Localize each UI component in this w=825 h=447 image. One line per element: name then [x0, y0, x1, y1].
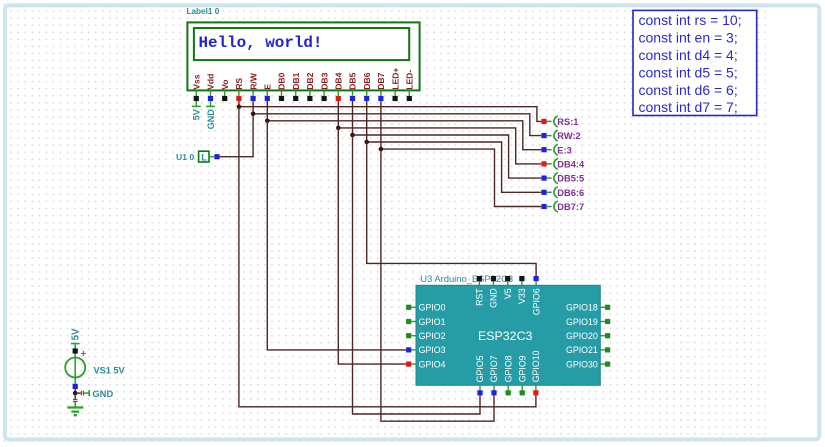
pin DB5 of LCD — [348, 72, 358, 101]
pin Vo of LCD — [220, 79, 230, 101]
pin V5 of U3 — [503, 276, 513, 299]
svg-text:const int d4 = 4;: const int d4 = 4; — [639, 47, 738, 63]
svg-text:Hello, world!: Hello, world! — [199, 34, 323, 52]
svg-text:GPIO18: GPIO18 — [566, 303, 598, 313]
pin GPIO9 of U3 — [517, 355, 527, 395]
pin RS of LCD — [234, 78, 244, 102]
wire DB7 pin to connector DB7 — [381, 101, 541, 206]
pin GND of U3 — [489, 276, 499, 308]
pin GPIO4 of U3 — [406, 359, 445, 369]
wire E pin to connector E — [267, 101, 541, 150]
wire DB5 pin to connector DB5 — [353, 101, 542, 178]
svg-text:DB2: DB2 — [305, 72, 315, 89]
svg-text:DB7: DB7 — [376, 72, 386, 89]
svg-text:DB4:4: DB4:4 — [557, 160, 585, 170]
svg-text:RW:2: RW:2 — [557, 131, 580, 141]
svg-text:VS1 5V: VS1 5V — [94, 366, 126, 376]
svg-text:GPIO3: GPIO3 — [419, 345, 446, 355]
svg-text:DB4: DB4 — [334, 72, 344, 89]
svg-text:GND: GND — [206, 109, 216, 130]
svg-text:E: E — [263, 84, 273, 90]
svg-text:RS: RS — [234, 78, 244, 90]
pin GPIO7 of U3 — [489, 355, 499, 395]
wire VS1 minus to junction — [74, 389, 76, 393]
svg-text:GPIO30: GPIO30 — [566, 359, 598, 369]
junction DB7 — [379, 147, 384, 152]
junction DB5 — [350, 133, 355, 138]
chip U3 ESP32C3 body — [416, 285, 600, 385]
wire DB4 to GPIO4 — [338, 128, 406, 364]
pin DB6 of LCD — [362, 72, 372, 101]
svg-text:LED+: LED+ — [390, 68, 400, 90]
connector DB4:4 — [541, 159, 585, 170]
pin RST of U3 — [475, 276, 485, 306]
pin GPIO6 of U3 — [531, 276, 541, 315]
label Label1 0 — [187, 7, 220, 16]
svg-text:GPIO10: GPIO10 — [531, 350, 541, 382]
net label 5V (Vss) — [192, 101, 202, 120]
pin LED- of LCD — [405, 70, 415, 101]
pin GPIO19 of U3 — [566, 317, 610, 327]
svg-text:DB5:5: DB5:5 — [557, 174, 584, 184]
svg-text:GPIO5: GPIO5 — [475, 355, 485, 382]
svg-text:DB6:6: DB6:6 — [557, 188, 584, 198]
pin DB3 of LCD — [319, 72, 329, 101]
svg-text:DB0: DB0 — [277, 72, 287, 89]
svg-text:ESP32C3: ESP32C3 — [478, 329, 533, 343]
pin DB1 of LCD — [291, 72, 301, 101]
svg-text:Label1 0: Label1 0 — [187, 7, 220, 16]
wire DB7 to GPIO7 — [381, 149, 494, 421]
svg-text:const int d7 = 7;: const int d7 = 7; — [639, 99, 738, 115]
svg-text:GPIO20: GPIO20 — [566, 331, 598, 341]
junction VS1 gnd node — [73, 391, 78, 396]
svg-text:GND: GND — [92, 388, 113, 399]
pin GPIO3 of U3 — [406, 345, 445, 355]
svg-text:L: L — [201, 152, 207, 163]
net label GND (VS1) — [75, 388, 113, 399]
svg-text:DB3: DB3 — [319, 72, 329, 89]
svg-text:RST: RST — [475, 288, 485, 306]
svg-text:GPIO1: GPIO1 — [419, 317, 446, 327]
svg-text:GPIO8: GPIO8 — [503, 355, 513, 382]
pin GPIO20 of U3 — [566, 331, 610, 341]
pin DB7 of LCD — [376, 72, 386, 101]
LCD display module Label1 — [187, 22, 419, 90]
connector DB6:6 — [541, 187, 584, 198]
connector DB5:5 — [541, 173, 584, 184]
svg-text:5V: 5V — [192, 109, 202, 120]
svg-text:GPIO9: GPIO9 — [517, 355, 527, 382]
svg-text:DB6: DB6 — [362, 72, 372, 89]
svg-text:GPIO0: GPIO0 — [419, 303, 446, 313]
svg-text:GPIO19: GPIO19 — [566, 317, 598, 327]
pin GPIO2 of U3 — [406, 331, 445, 341]
svg-text:E:3: E:3 — [557, 145, 571, 155]
pin GPIO0 of U3 — [406, 303, 445, 313]
svg-text:GND: GND — [489, 288, 499, 308]
ground symbol — [67, 395, 83, 416]
svg-text:DB1: DB1 — [291, 72, 301, 89]
svg-text:LED-: LED- — [405, 70, 415, 90]
svg-text:GPIO21: GPIO21 — [566, 345, 598, 355]
svg-text:GPIO6: GPIO6 — [531, 288, 541, 315]
label U3 Arduino_ESP32C3 — [420, 273, 513, 284]
svg-text:U3 Arduino_ESP32C3: U3 Arduino_ESP32C3 — [420, 273, 513, 284]
junction DB6 — [364, 140, 369, 145]
pin LED+ of LCD — [390, 68, 400, 102]
voltage source VS1 — [65, 346, 86, 390]
label U1 0 — [176, 152, 194, 162]
junction RS — [237, 104, 242, 109]
wire DB6 to GPIO6 — [367, 142, 536, 276]
svg-text:const int d5 = 5;: const int d5 = 5; — [639, 64, 738, 80]
pin GPIO10 of U3 — [531, 350, 541, 395]
label VS1 5V — [94, 366, 126, 376]
pin GPIO21 of U3 — [566, 345, 610, 355]
logic input U1 (fixed L) — [199, 151, 220, 163]
pin V33 of U3 — [517, 276, 527, 304]
connector E:3 — [541, 144, 571, 155]
pin GPIO30 of U3 — [566, 359, 610, 369]
wire DB5 to GPIO5 — [353, 135, 481, 414]
wire R/W pin to connector R/W — [253, 101, 541, 136]
svg-text:DB5: DB5 — [348, 72, 358, 89]
connector RW:2 — [541, 130, 580, 141]
LCD text Hello, world! — [199, 34, 323, 52]
svg-text:GPIO2: GPIO2 — [419, 331, 446, 341]
junction R/W — [251, 112, 256, 117]
svg-text:const int rs = 10;: const int rs = 10; — [639, 12, 742, 28]
net label GND (Vdd) — [206, 101, 216, 129]
connector RS:1 — [541, 116, 578, 127]
connector DB7:7 — [541, 201, 584, 212]
pin R/W of LCD — [248, 72, 258, 101]
pin E of LCD — [263, 84, 273, 101]
svg-text:5V: 5V — [70, 328, 81, 340]
svg-text:GPIO7: GPIO7 — [489, 355, 499, 382]
wire DB4 pin to connector DB4 — [338, 101, 541, 164]
svg-text:V33: V33 — [517, 288, 527, 304]
svg-text:const int en = 3;: const int en = 3; — [639, 30, 738, 46]
svg-text:Vo: Vo — [220, 79, 230, 89]
pin GPIO1 of U3 — [406, 317, 445, 327]
svg-text:const int d6 = 6;: const int d6 = 6; — [639, 82, 738, 98]
pin DB0 of LCD — [277, 72, 287, 101]
pin DB2 of LCD — [305, 72, 315, 101]
pin GPIO8 of U3 — [503, 355, 513, 395]
wire U1 to R/W — [220, 114, 253, 157]
svg-text:Vdd: Vdd — [206, 74, 216, 90]
pin Vdd of LCD — [206, 74, 216, 102]
junction E — [265, 119, 270, 124]
svg-text:DB7:7: DB7:7 — [557, 202, 584, 212]
svg-text:U1 0: U1 0 — [176, 152, 194, 162]
junction DB4 — [336, 126, 341, 131]
svg-text:RS:1: RS:1 — [557, 117, 578, 127]
svg-text:R/W: R/W — [248, 72, 258, 90]
pin DB4 of LCD — [334, 72, 344, 101]
wire E to GPIO3 — [267, 121, 406, 350]
wire RS pin to connector RS — [239, 101, 541, 121]
code note box — [633, 10, 757, 115]
pin GPIO18 of U3 — [566, 303, 610, 313]
pin GPIO5 of U3 — [475, 355, 485, 395]
svg-text:Vss: Vss — [192, 74, 202, 90]
svg-text:GPIO4: GPIO4 — [419, 359, 446, 369]
pin Vss of LCD — [192, 74, 202, 101]
wire RS to GPIO10 — [239, 107, 536, 407]
net label 5V (VS1) — [70, 328, 81, 348]
wire DB6 pin to connector DB6 — [367, 101, 542, 192]
svg-text:V5: V5 — [503, 288, 513, 299]
svg-text:+: + — [81, 349, 87, 360]
